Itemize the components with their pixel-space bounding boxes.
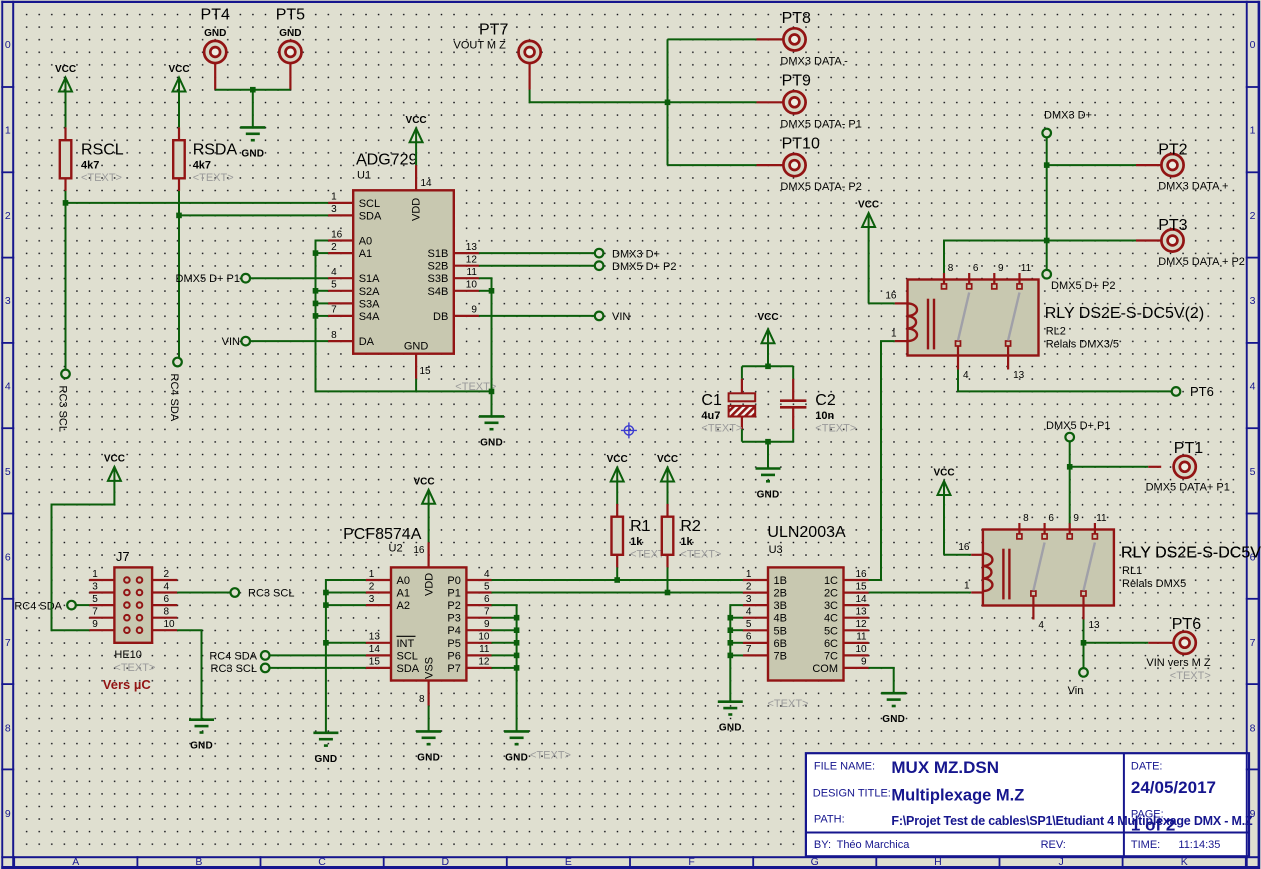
svg-text:Relais DMX3/5: Relais DMX3/5 xyxy=(1046,339,1119,351)
svg-text:11: 11 xyxy=(467,267,478,278)
svg-text:GND: GND xyxy=(505,752,528,763)
svg-text:DMX5 D+ P1: DMX5 D+ P1 xyxy=(176,273,241,285)
svg-text:7: 7 xyxy=(1250,637,1256,649)
svg-text:2B: 2B xyxy=(774,588,787,600)
svg-text:VCC: VCC xyxy=(104,453,125,464)
svg-text:1: 1 xyxy=(964,580,970,591)
svg-text:F:\Projet Test de cables\SP1\E: F:\Projet Test de cables\SP1\Etudiant 4 … xyxy=(891,814,1253,828)
svg-text:DATE:: DATE: xyxy=(1131,760,1163,772)
svg-text:2: 2 xyxy=(1250,210,1256,222)
svg-text:PT3: PT3 xyxy=(1158,217,1187,234)
svg-text:S1A: S1A xyxy=(359,273,380,285)
svg-text:7: 7 xyxy=(331,305,337,316)
svg-text:PATH:: PATH: xyxy=(814,813,845,825)
svg-text:5: 5 xyxy=(1250,466,1256,478)
svg-text:24/05/2017: 24/05/2017 xyxy=(1131,778,1216,797)
svg-text:<TEXT>: <TEXT> xyxy=(1170,670,1211,682)
svg-text:VCC: VCC xyxy=(413,476,434,487)
svg-text:6: 6 xyxy=(1048,513,1054,524)
svg-text:1B: 1B xyxy=(774,575,787,587)
svg-text:DMX5 D+ P1: DMX5 D+ P1 xyxy=(1046,420,1111,432)
svg-text:VCC: VCC xyxy=(168,64,189,75)
svg-text:DMX3 DATA +: DMX3 DATA + xyxy=(1158,181,1228,193)
svg-text:P3: P3 xyxy=(447,613,460,625)
svg-text:4: 4 xyxy=(1250,381,1256,393)
svg-text:TIME:: TIME: xyxy=(1131,839,1160,851)
svg-text:FILE NAME:: FILE NAME: xyxy=(814,760,875,772)
svg-text:7: 7 xyxy=(746,644,752,655)
svg-text:C1: C1 xyxy=(701,392,722,409)
svg-text:10: 10 xyxy=(855,644,867,655)
svg-text:PT10: PT10 xyxy=(782,136,820,153)
svg-text:GND: GND xyxy=(757,490,780,501)
svg-text:7: 7 xyxy=(5,637,11,649)
svg-text:15: 15 xyxy=(369,657,381,668)
svg-text:9: 9 xyxy=(5,808,11,820)
svg-text:11: 11 xyxy=(479,644,490,655)
svg-text:1: 1 xyxy=(746,569,752,580)
svg-text:3: 3 xyxy=(746,594,752,605)
svg-text:14: 14 xyxy=(369,644,381,655)
svg-text:9: 9 xyxy=(861,657,867,668)
svg-text:DMX3 D+: DMX3 D+ xyxy=(1044,109,1092,121)
svg-text:GND: GND xyxy=(314,754,337,765)
svg-text:A1: A1 xyxy=(359,248,372,260)
svg-text:RC3 SCL: RC3 SCL xyxy=(248,588,294,600)
svg-text:SCL: SCL xyxy=(359,198,380,210)
svg-text:2: 2 xyxy=(164,569,170,580)
svg-text:10n: 10n xyxy=(815,410,834,422)
svg-text:<TEXT>: <TEXT> xyxy=(680,549,721,561)
svg-text:GND: GND xyxy=(480,437,503,448)
svg-text:U1: U1 xyxy=(357,170,371,182)
svg-text:HE10: HE10 xyxy=(114,649,142,661)
svg-text:S3B: S3B xyxy=(428,273,449,285)
svg-text:A1: A1 xyxy=(397,588,410,600)
svg-text:3B: 3B xyxy=(774,600,787,612)
svg-text:VSS: VSS xyxy=(424,657,436,679)
svg-text:4: 4 xyxy=(484,569,490,580)
svg-text:INT: INT xyxy=(397,638,415,650)
svg-text:RLY DS2E-S-DC5V: RLY DS2E-S-DC5V xyxy=(1121,545,1261,562)
svg-text:PT4: PT4 xyxy=(201,7,230,24)
svg-text:DMX5 D+ P2: DMX5 D+ P2 xyxy=(612,261,677,273)
svg-text:VCC: VCC xyxy=(607,454,628,465)
svg-text:<TEXT>: <TEXT> xyxy=(114,662,155,674)
svg-text:Vers µC: Vers µC xyxy=(103,677,152,692)
svg-text:S4A: S4A xyxy=(359,311,380,323)
svg-text:3: 3 xyxy=(92,581,98,592)
svg-text:J7: J7 xyxy=(116,549,130,564)
svg-text:9: 9 xyxy=(1073,513,1079,524)
svg-text:4u7: 4u7 xyxy=(701,410,720,422)
svg-text:5: 5 xyxy=(746,619,752,630)
svg-text:VIN: VIN xyxy=(222,336,240,348)
svg-text:Relais DMX5: Relais DMX5 xyxy=(1122,578,1186,590)
svg-text:6: 6 xyxy=(746,632,752,643)
svg-text:13: 13 xyxy=(855,607,867,618)
svg-text:16: 16 xyxy=(855,569,867,580)
svg-text:<TEXT>: <TEXT> xyxy=(701,423,742,435)
svg-text:8: 8 xyxy=(164,607,170,618)
svg-text:RC4 SDA: RC4 SDA xyxy=(209,651,257,663)
svg-text:RSDA: RSDA xyxy=(193,142,238,159)
svg-text:<TEXT>: <TEXT> xyxy=(455,381,496,393)
svg-text:Multiplexage M.Z: Multiplexage M.Z xyxy=(891,786,1024,804)
svg-text:14: 14 xyxy=(421,178,433,189)
svg-text:7B: 7B xyxy=(774,650,787,662)
svg-text:4: 4 xyxy=(331,267,337,278)
svg-text:<TEXT>: <TEXT> xyxy=(768,698,809,710)
svg-text:A0: A0 xyxy=(397,575,410,587)
svg-text:0: 0 xyxy=(1250,39,1256,51)
svg-text:A0: A0 xyxy=(359,236,372,248)
svg-text:VCC: VCC xyxy=(406,115,427,126)
svg-text:2C: 2C xyxy=(824,588,838,600)
svg-text:VDD: VDD xyxy=(424,573,436,596)
svg-text:5B: 5B xyxy=(774,625,787,637)
svg-text:9: 9 xyxy=(998,263,1004,274)
svg-text:1: 1 xyxy=(891,328,897,339)
svg-text:BY:: BY: xyxy=(814,839,831,851)
svg-text:10: 10 xyxy=(478,632,490,643)
svg-text:VCC: VCC xyxy=(858,200,879,211)
svg-text:PT6: PT6 xyxy=(1190,384,1214,399)
svg-text:8: 8 xyxy=(1250,723,1256,735)
svg-text:6: 6 xyxy=(973,263,979,274)
svg-text:1: 1 xyxy=(1250,124,1256,136)
svg-text:5: 5 xyxy=(331,280,337,291)
svg-text:12: 12 xyxy=(466,255,478,266)
svg-text:REV:: REV: xyxy=(1041,839,1066,851)
svg-text:3: 3 xyxy=(1250,295,1256,307)
svg-text:ULN2003A: ULN2003A xyxy=(767,524,846,541)
svg-text:7: 7 xyxy=(92,607,98,618)
svg-text:7C: 7C xyxy=(824,650,838,662)
svg-text:16: 16 xyxy=(413,545,425,556)
svg-text:RLY DS2E-S-DC5V(2): RLY DS2E-S-DC5V(2) xyxy=(1045,305,1204,322)
svg-text:<TEXT>: <TEXT> xyxy=(530,750,571,762)
svg-text:PT8: PT8 xyxy=(782,10,811,27)
svg-text:8: 8 xyxy=(5,723,11,735)
svg-text:8: 8 xyxy=(331,330,337,341)
svg-text:5: 5 xyxy=(484,581,490,592)
svg-text:RL2: RL2 xyxy=(1046,326,1066,338)
svg-text:4B: 4B xyxy=(774,613,787,625)
svg-text:DA: DA xyxy=(359,336,375,348)
svg-text:6C: 6C xyxy=(824,638,838,650)
svg-text:2: 2 xyxy=(369,581,375,592)
svg-text:1: 1 xyxy=(92,569,98,580)
svg-text:SDA: SDA xyxy=(397,663,420,675)
svg-text:DB: DB xyxy=(433,311,448,323)
svg-text:RC4 SDA: RC4 SDA xyxy=(168,374,180,422)
svg-text:PCF8574A: PCF8574A xyxy=(343,526,422,543)
svg-text:R1: R1 xyxy=(630,518,651,535)
svg-text:4: 4 xyxy=(746,607,752,618)
svg-text:9: 9 xyxy=(92,619,98,630)
svg-text:2: 2 xyxy=(5,210,11,222)
svg-text:S4B: S4B xyxy=(428,286,449,298)
svg-text:7: 7 xyxy=(484,607,490,618)
svg-text:RC3 SCL: RC3 SCL xyxy=(211,663,257,675)
svg-text:0: 0 xyxy=(5,39,11,51)
svg-text:3: 3 xyxy=(5,295,11,307)
svg-text:8: 8 xyxy=(419,694,425,705)
svg-text:DMX5 D+ P2: DMX5 D+ P2 xyxy=(1051,280,1116,292)
svg-text:PT2: PT2 xyxy=(1158,141,1187,158)
svg-text:SCL: SCL xyxy=(397,650,418,662)
svg-text:VDD: VDD xyxy=(411,198,423,221)
svg-text:U2: U2 xyxy=(389,543,403,555)
svg-text:Vin: Vin xyxy=(1068,685,1084,697)
svg-text:RSCL: RSCL xyxy=(81,142,124,159)
svg-text:S2A: S2A xyxy=(359,286,380,298)
svg-text:4: 4 xyxy=(963,370,969,381)
svg-text:GND: GND xyxy=(190,741,213,752)
svg-text:2: 2 xyxy=(331,242,337,253)
svg-text:8: 8 xyxy=(948,263,954,274)
svg-text:VCC: VCC xyxy=(657,454,678,465)
svg-text:VIN vers M Z: VIN vers M Z xyxy=(1146,657,1210,669)
svg-text:3: 3 xyxy=(369,594,375,605)
svg-text:16: 16 xyxy=(958,542,970,553)
svg-text:DMX3 DATA -: DMX3 DATA - xyxy=(780,56,848,68)
svg-text:GND: GND xyxy=(417,752,440,763)
svg-text:10: 10 xyxy=(466,280,478,291)
svg-text:12: 12 xyxy=(855,619,867,630)
svg-text:SDA: SDA xyxy=(359,210,382,222)
svg-text:R2: R2 xyxy=(680,518,701,535)
svg-text:<TEXT>: <TEXT> xyxy=(815,423,856,435)
svg-text:5: 5 xyxy=(92,594,98,605)
svg-text:4C: 4C xyxy=(824,613,838,625)
svg-text:P6: P6 xyxy=(447,650,460,662)
svg-text:DESIGN TITLE:: DESIGN TITLE: xyxy=(813,788,891,800)
svg-text:1k: 1k xyxy=(630,536,643,548)
svg-text:1C: 1C xyxy=(824,575,838,587)
svg-text:RC4 SDA: RC4 SDA xyxy=(14,600,62,612)
svg-text:U3: U3 xyxy=(769,544,783,556)
svg-text:P2: P2 xyxy=(447,600,460,612)
svg-text:Théo Marchica: Théo Marchica xyxy=(837,839,911,851)
svg-text:VCC: VCC xyxy=(933,468,954,479)
svg-text:RL1: RL1 xyxy=(1122,565,1142,577)
svg-text:DMX5 DATA- P1: DMX5 DATA- P1 xyxy=(780,118,862,130)
svg-text:11: 11 xyxy=(1021,263,1032,274)
svg-text:11: 11 xyxy=(856,632,867,643)
svg-text:6: 6 xyxy=(5,552,11,564)
svg-text:4k7: 4k7 xyxy=(81,160,99,172)
svg-text:16: 16 xyxy=(885,291,897,302)
svg-text:<TEXT>: <TEXT> xyxy=(81,172,122,184)
svg-text:RC3 SCL: RC3 SCL xyxy=(57,386,69,432)
svg-text:1: 1 xyxy=(331,192,337,203)
svg-text:13: 13 xyxy=(1013,370,1025,381)
svg-text:4: 4 xyxy=(1038,620,1044,631)
svg-text:4k7: 4k7 xyxy=(193,160,211,172)
svg-text:11:14:35: 11:14:35 xyxy=(1178,839,1220,851)
svg-text:P4: P4 xyxy=(447,625,460,637)
svg-text:P7: P7 xyxy=(447,663,460,675)
svg-text:2: 2 xyxy=(746,581,752,592)
svg-text:1: 1 xyxy=(369,569,375,580)
svg-text:ADG729: ADG729 xyxy=(356,152,417,169)
svg-text:COM: COM xyxy=(812,663,838,675)
svg-text:10: 10 xyxy=(164,619,176,630)
svg-text:PT7: PT7 xyxy=(479,21,508,38)
svg-text:13: 13 xyxy=(369,632,381,643)
svg-text:PT6: PT6 xyxy=(1172,616,1201,633)
svg-text:GND: GND xyxy=(204,28,226,39)
svg-text:15: 15 xyxy=(420,366,432,377)
svg-text:3: 3 xyxy=(331,204,337,215)
svg-text:GND: GND xyxy=(279,28,301,39)
svg-text:GND: GND xyxy=(241,148,264,159)
svg-text:6B: 6B xyxy=(774,638,787,650)
svg-text:6: 6 xyxy=(484,594,490,605)
svg-text:S2B: S2B xyxy=(428,261,449,273)
svg-text:8: 8 xyxy=(1023,513,1029,524)
svg-text:PT9: PT9 xyxy=(782,73,811,90)
svg-text:P5: P5 xyxy=(447,638,460,650)
svg-text:3C: 3C xyxy=(824,600,838,612)
svg-text:GND: GND xyxy=(882,714,905,725)
svg-text:C2: C2 xyxy=(815,392,836,409)
svg-text:12: 12 xyxy=(478,657,490,668)
svg-text:DMX5 DATA- P2: DMX5 DATA- P2 xyxy=(780,181,862,193)
svg-text:11: 11 xyxy=(1096,513,1107,524)
svg-text:1k: 1k xyxy=(680,536,693,548)
svg-text:9: 9 xyxy=(484,619,490,630)
svg-text:9: 9 xyxy=(471,305,477,316)
svg-text:GND: GND xyxy=(719,723,742,734)
svg-text:VOUT M Z: VOUT M Z xyxy=(454,40,507,52)
svg-text:13: 13 xyxy=(1089,620,1101,631)
svg-text:S3A: S3A xyxy=(359,298,380,310)
svg-text:16: 16 xyxy=(331,229,343,240)
svg-text:DMX5 DATA + P2: DMX5 DATA + P2 xyxy=(1158,256,1245,268)
svg-text:P0: P0 xyxy=(447,575,460,587)
svg-text:PT1: PT1 xyxy=(1174,440,1203,457)
svg-text:5C: 5C xyxy=(824,625,838,637)
svg-text:VIN: VIN xyxy=(612,311,630,323)
svg-text:4: 4 xyxy=(164,581,170,592)
svg-text:A2: A2 xyxy=(397,600,410,612)
svg-text:VCC: VCC xyxy=(757,312,778,323)
svg-text:VCC: VCC xyxy=(55,64,76,75)
svg-text:DMX3 D+: DMX3 D+ xyxy=(612,248,660,260)
svg-text:13: 13 xyxy=(466,242,478,253)
svg-text:PT5: PT5 xyxy=(276,7,305,24)
svg-text:15: 15 xyxy=(855,581,867,592)
svg-text:14: 14 xyxy=(855,594,867,605)
svg-text:GND: GND xyxy=(404,341,429,353)
svg-text:MUX MZ.DSN: MUX MZ.DSN xyxy=(891,758,999,777)
svg-text:4: 4 xyxy=(5,381,11,393)
svg-text:S1B: S1B xyxy=(428,248,449,260)
svg-text:P1: P1 xyxy=(447,588,460,600)
svg-text:<TEXT>: <TEXT> xyxy=(193,172,234,184)
svg-text:6: 6 xyxy=(164,594,170,605)
svg-text:1: 1 xyxy=(5,124,11,136)
svg-text:DMX5 DATA+ P1: DMX5 DATA+ P1 xyxy=(1146,481,1230,493)
svg-text:5: 5 xyxy=(5,466,11,478)
